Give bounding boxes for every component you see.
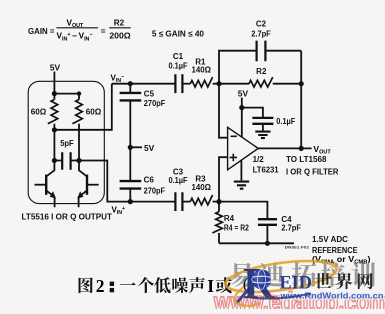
svg-text:2: 2 [96, 276, 105, 296]
node VIN+ [128, 199, 133, 204]
capacitor C6 270pF [120, 175, 166, 201]
svg-text:5V: 5V [144, 143, 155, 153]
watermark: gold curl [235, 287, 259, 306]
svg-text:270pF: 270pF [144, 186, 166, 195]
svg-text:2.7pF: 2.7pF [281, 224, 301, 233]
wire left rail down [53, 130, 55, 161]
label 1.5V ADC REFERENCE [312, 235, 371, 265]
wire left collector to VIN- [54, 84, 111, 130]
resistor 60ohm right [72, 94, 101, 161]
node VOUT [299, 146, 304, 151]
svg-text:R2: R2 [256, 67, 267, 76]
svg-text:C1: C1 [173, 52, 184, 61]
svg-text:REFERENCE: REFERENCE [312, 246, 358, 255]
svg-text:LT5516 I OR Q OUTPUT: LT5516 I OR Q OUTPUT [22, 213, 113, 222]
op-amp U1 1/2 LT6231 [228, 127, 280, 174]
watermark: navy flourish under EID [250, 294, 311, 299]
ground decoupling [255, 132, 270, 139]
capacitor C1 0.1uF [169, 52, 188, 93]
watermark: globe [252, 270, 272, 290]
svg-text:C2: C2 [256, 20, 267, 29]
svg-text:60Ω: 60Ω [31, 108, 47, 117]
watermark: logo shijiewang characters [315, 273, 373, 289]
wire VIN- rail [112, 83, 175, 85]
svg-text:1.5V ADC: 1.5V ADC [312, 235, 348, 244]
label TO LT1568 I OR Q FILTER [286, 155, 339, 177]
node feedback right [299, 81, 304, 86]
node 5pF right [76, 158, 81, 163]
capacitor 5pF [54, 139, 79, 170]
node decoupling [239, 105, 244, 110]
resistor 60ohm left [31, 94, 58, 130]
svg-text:140Ω: 140Ω [191, 183, 211, 192]
wire reference rail [219, 242, 294, 244]
resistor R2 [219, 67, 301, 87]
svg-text:=: = [101, 27, 106, 36]
capacitor C5 270pF [120, 84, 166, 108]
LT5516 I OR Q OUTPUT block outline [28, 81, 104, 203]
wire 5V node to C6 [129, 147, 131, 180]
node VIN- [128, 81, 133, 86]
node C4 bottom [265, 241, 270, 246]
watermark: logo swoosh [237, 288, 251, 304]
svg-text:0.1µF: 0.1µF [169, 176, 188, 185]
svg-text:1/2: 1/2 [253, 155, 265, 164]
capacitor 0.1uF decoupling [242, 108, 296, 131]
wire op-amp V- to ground [240, 160, 242, 181]
wire right collector to VIN+ [79, 161, 130, 202]
5V supply op-amp [238, 89, 249, 138]
svg-text:5V: 5V [50, 62, 61, 72]
caption: figure 2 chinese text [79, 276, 249, 296]
ground op-amp [234, 182, 249, 189]
capacitor C3 0.1uF [130, 168, 187, 211]
gain formula GAIN = VOUT/(VIN+ - VIN-) = R2/200 [28, 19, 131, 43]
svg-text:0.1µF: 0.1µF [276, 117, 295, 126]
svg-text:R4 = R2: R4 = R2 [224, 223, 249, 232]
watermark: edatop red characters [230, 262, 375, 287]
watermark: orange orbit ellipse [224, 255, 339, 297]
svg-text:C5: C5 [144, 89, 155, 98]
svg-text:C4: C4 [281, 215, 292, 224]
node summing (inverting input) [216, 81, 221, 86]
svg-text:LT6231: LT6231 [253, 165, 280, 174]
svg-text:GAIN =: GAIN = [28, 27, 55, 36]
wire to inverting input [219, 84, 228, 138]
wire C1 to R1 [182, 83, 190, 85]
node left collector [52, 127, 57, 132]
capacitor C4 2.7pF [219, 202, 301, 244]
transistor Q right of LT5516 [77, 161, 98, 208]
svg-text:60Ω: 60Ω [86, 108, 102, 117]
node 5pF left [52, 158, 57, 163]
svg-text:5 ≤ GAIN ≤ 40: 5 ≤ GAIN ≤ 40 [152, 28, 204, 38]
svg-text:0.1µF: 0.1µF [169, 61, 188, 70]
node 5V mid [128, 145, 133, 150]
svg-text:C6: C6 [144, 175, 155, 184]
transistor Q left of LT5516 [35, 161, 56, 208]
svg-text:TO LT1568: TO LT1568 [286, 155, 327, 164]
svg-text:270pF: 270pF [144, 99, 166, 108]
wire output VOUT [258, 147, 311, 149]
wire 5V to resistors [53, 72, 55, 94]
resistor R1 140ohm [190, 57, 219, 87]
node 5V/60-ohm tops [52, 91, 57, 96]
wire to non-inverting input [219, 157, 228, 201]
svg-text:DN361 F02: DN361 F02 [285, 245, 310, 250]
svg-text:140Ω: 140Ω [191, 66, 211, 75]
capacitor C2 2.7pF [219, 20, 301, 84]
svg-text:I OR Q FILTER: I OR Q FILTER [286, 167, 339, 176]
resistor R3 140ohm [182, 175, 219, 205]
wire feedback right vertical [300, 51, 302, 149]
node non-inverting [216, 199, 221, 204]
svg-text:5pF: 5pF [60, 139, 73, 148]
svg-text:2.7pF: 2.7pF [251, 30, 271, 39]
svg-text:5V: 5V [238, 89, 249, 99]
svg-text:200Ω: 200Ω [109, 32, 131, 41]
5V stub and label (mid) [130, 146, 142, 148]
wire C5 to 5V node [129, 101, 131, 147]
svg-text:R4: R4 [224, 214, 235, 223]
svg-text:R2: R2 [114, 19, 125, 28]
resistor R4 [212, 202, 249, 244]
